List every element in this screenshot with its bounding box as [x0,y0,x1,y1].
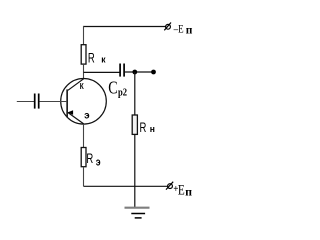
resistor Rн [132,115,155,136]
wire Rн branch lower to bottom rail and ground [134,134,136,207]
svg-text:п: п [186,25,193,37]
terminal +Eп [166,181,192,198]
svg-text:–E: –E [173,23,184,35]
capacitor Cр2 [108,64,127,99]
node output dot [151,70,156,75]
label К collector [80,81,84,91]
svg-text:R: R [86,150,93,166]
svg-text:R: R [88,50,95,66]
svg-text:э: э [84,110,90,121]
svg-text:E: E [178,181,185,198]
terminal -Eп [164,23,193,37]
ground [125,208,150,218]
wire collector node to Cр2 [84,71,120,73]
transistor emitter diagonal [68,113,84,124]
capacitor input coupling [35,94,39,109]
wire Cр2 to output node [125,71,154,73]
svg-text:э: э [96,157,101,169]
wire Rн branch upper [134,72,136,115]
wire collector branch upper (top rail to Rк) [83,26,85,45]
svg-text:н: н [150,124,155,135]
node junction dot at Rн branch [132,70,137,75]
wire Rк to transistor collector [83,64,85,79]
transistor collector diagonal [68,79,84,91]
svg-text:C: C [108,79,117,98]
svg-text:R: R [140,119,147,135]
wire emitter to Rэ [83,124,85,148]
svg-text:п: п [185,184,192,198]
wire input left segment [17,101,34,103]
svg-text:к: к [101,54,106,65]
resistor Rк [81,45,106,66]
svg-text:К: К [80,81,84,91]
wire input cap to base [39,101,66,103]
wire Rэ to bottom rail [83,167,85,187]
transistor base bar [66,89,68,117]
wire top rail from Rк to -Eп terminal [84,26,166,28]
svg-text:р2: р2 [118,88,127,99]
label э emitter [84,110,90,121]
transistor VT circle [61,79,107,125]
transistor emitter arrow (PNP, points to base) [68,110,74,115]
wire bottom rail to +Eп terminal [84,185,168,187]
resistor Rэ [81,148,101,169]
